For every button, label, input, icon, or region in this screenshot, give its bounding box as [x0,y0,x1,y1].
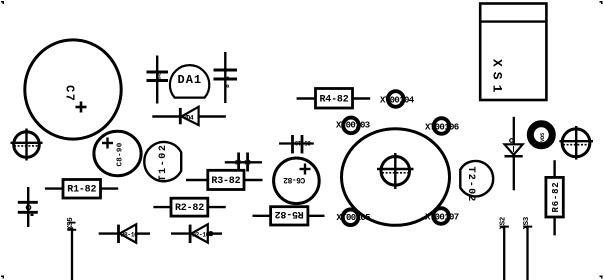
diode VD4 [152,107,226,125]
transistor T2 body [460,161,493,196]
corner mark bottom-left [1,276,4,279]
svg-text:C5-10: C5-10 [294,139,311,146]
diode VD3 (vertical) [505,117,523,191]
svg-text:XT00103: XT00103 [336,120,370,130]
svg-text:R1-82: R1-82 [67,185,96,196]
svg-text:VD5: VD5 [539,132,546,142]
capacitor C4 [225,153,262,172]
svg-text:T2-02: T2-02 [465,167,476,203]
pad hole center (crosshair) [377,153,414,189]
capacitor C5 [279,135,314,153]
transistor T1 body [144,142,181,181]
svg-text:R3-82: R3-82 [211,176,240,187]
capacitor C2 (right of DA1) [214,52,238,103]
svg-text:88: 88 [156,72,163,80]
capacitor C6 body [274,158,320,204]
capacitor C6 polarity plus [300,164,311,175]
capacitor C7 body [25,40,121,139]
svg-text:VD4: VD4 [183,115,194,122]
diode VD2 [171,224,222,243]
svg-text:R2-82: R2-82 [175,203,204,214]
resistor R3 [186,170,263,189]
svg-text:R4-82: R4-82 [319,95,348,106]
IC DA1 body [170,65,209,97]
svg-text:D2-10: D2-10 [192,232,210,239]
capacitor C8 body [94,131,141,175]
resistor R6 [546,160,563,235]
corner mark top-left [1,1,4,4]
svg-text:8 S: 8 S [224,76,231,88]
svg-text:D8-10: D8-10 [121,232,139,239]
svg-text:T1-02: T1-02 [158,143,169,181]
svg-text:XT00104: XT00104 [380,95,415,105]
svg-text:R6-82: R6-82 [551,181,561,212]
resistor R5 [253,207,325,225]
pad XT00107 ring [433,208,449,224]
connector XS1 divider [480,20,546,22]
wire XS2 [500,216,509,280]
wire XS3 [523,216,532,280]
resistor R2 [153,198,225,216]
pad XT00103 ring [343,118,359,134]
svg-text:C4-10: C4-10 [234,158,251,165]
corner mark bottom-right [600,276,603,279]
resistor R1 [45,180,118,199]
svg-text:C6-82: C6-82 [283,175,305,184]
diode VD8 [99,224,150,243]
capacitor C8 polarity plus [102,138,113,149]
svg-text:R5-82: R5-82 [275,208,304,219]
pad XT00104 ring [388,91,404,107]
svg-text:C8-90: C8-90 [117,142,125,166]
resistor R4 [297,89,371,109]
svg-text:C7: C7 [63,85,77,102]
pad XT00105 ring [343,210,359,226]
svg-text:XT00106: XT00106 [425,122,459,132]
svg-text:DA1: DA1 [178,73,203,87]
capacitor C1 (left of DA1) [147,56,169,104]
pad XT00106 ring [434,118,450,134]
svg-text:XS1: XS1 [490,59,505,97]
pad hole XT00101 (crosshair left) [11,129,43,161]
pad hole right (crosshair) [559,126,593,160]
connector XS1 body [480,4,546,101]
diode VD5 (pad ring) [530,124,552,146]
wire XS5 [67,217,76,280]
corner mark top-right [600,1,603,4]
transformer T3 body (large ellipse) [342,129,450,226]
capacitor C7 polarity plus [76,102,87,113]
capacitor C3 (far left) [18,187,38,227]
